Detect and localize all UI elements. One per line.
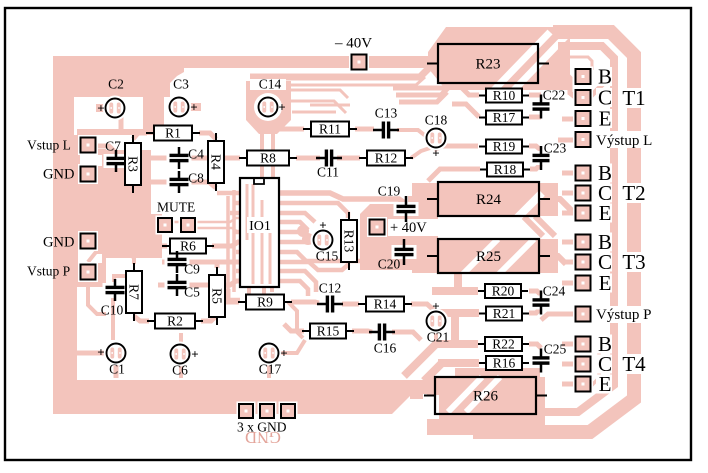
wire IO1 left channel vertical 1 — [226, 196, 230, 296]
wire R24 left lead — [408, 196, 426, 202]
wire C2 positive stub — [96, 104, 110, 112]
capacitor C1 — [104, 341, 129, 366]
svg-text:Vstup P: Vstup P — [27, 264, 70, 279]
resistor R22 — [478, 337, 529, 352]
svg-text:T3: T3 — [622, 250, 645, 274]
wire IO1 left pin 3 stub — [230, 211, 241, 216]
wire R16 band diag to ground — [424, 363, 442, 381]
wire R18 right to C23 bottom — [530, 164, 541, 169]
capacitor C2 — [103, 96, 128, 121]
svg-text:C9: C9 — [184, 262, 200, 277]
wire C24 to Vystup P pad — [541, 314, 576, 320]
wire C17 right to R15 — [277, 340, 305, 353]
wire channel diagonal 1 between R24 R25 — [523, 216, 543, 236]
wire C14 down trace 2 to IO1 — [271, 132, 275, 178]
svg-text:R14: R14 — [374, 297, 397, 312]
capacitor C7 — [104, 150, 129, 172]
wire C pad T2 stub — [562, 191, 576, 196]
wire R1 left to R3 top — [133, 133, 147, 139]
svg-text:C7: C7 — [105, 139, 121, 154]
svg-text:R26: R26 — [473, 389, 499, 405]
wire band to R20 left — [432, 287, 478, 295]
wire C11 right to R12 left — [337, 156, 360, 161]
wire R15 left stub — [284, 324, 304, 331]
copper island around C14 — [246, 81, 291, 134]
wire IO1 left pin 2 stub — [234, 201, 241, 206]
resistor R4 — [208, 133, 224, 191]
wire C6 stub up — [179, 333, 183, 345]
svg-text:C2: C2 — [108, 77, 124, 92]
svg-text:R3: R3 — [125, 156, 140, 172]
wire R5 top up — [215, 260, 220, 268]
capacitor C14 — [256, 95, 281, 120]
svg-text:R17: R17 — [493, 110, 516, 125]
copper bottom ground band — [53, 380, 427, 414]
pad Vystup L — [573, 130, 593, 150]
wire C9 left into plane — [162, 260, 170, 265]
wire R22 band diag to ground — [404, 344, 436, 376]
copper clearance stripes under R26 — [448, 377, 482, 412]
wire Vystup L pad stub — [558, 138, 576, 143]
svg-text:C10: C10 — [101, 303, 124, 318]
wire C10 top to R7 — [114, 276, 126, 282]
svg-text:C12: C12 — [319, 281, 342, 296]
wire C5 left into plane — [158, 283, 170, 288]
svg-text:C24: C24 — [543, 284, 566, 299]
pad GND bottom 2 — [258, 402, 277, 421]
wire C14 island to right 2 — [291, 101, 346, 113]
resistor R18 — [480, 162, 530, 177]
wire C8 left into plane — [150, 180, 168, 185]
svg-text:GND: GND — [43, 166, 74, 182]
copper clearance for IO1 label — [247, 217, 275, 233]
capacitor C4 — [167, 147, 192, 169]
wire IO1 left pin 7 stub — [236, 250, 241, 255]
svg-text:T1: T1 — [622, 86, 645, 110]
svg-text:Výstup P: Výstup P — [596, 307, 651, 323]
wire C22 to B pad T1 — [591, 75, 612, 96]
pad T3 B — [573, 232, 593, 252]
svg-text:C1: C1 — [109, 362, 125, 377]
wire R8 right to C11 left — [296, 156, 320, 161]
wire IO1 pin 19 to R13 top — [279, 203, 348, 218]
wire R25 right lead into band — [548, 256, 566, 264]
svg-text:+: + — [190, 99, 197, 114]
copper strip to R1 — [143, 92, 164, 135]
capacitor C9 — [165, 251, 190, 273]
svg-text:T2: T2 — [622, 181, 645, 205]
svg-text:C15: C15 — [316, 249, 339, 264]
svg-text:C18: C18 — [425, 113, 448, 128]
svg-text:R12: R12 — [375, 151, 398, 166]
wire R9 left up — [228, 289, 239, 302]
svg-text:E: E — [599, 271, 612, 295]
copper plane behind R23 — [428, 27, 570, 90]
wire Vstup L pad to C7 top — [95, 146, 115, 152]
wire C5 right to IO1 pin — [186, 281, 241, 285]
copper patch around Vstup L and GND pads — [77, 135, 106, 188]
wire IO1 pin 17 to C15 plus — [279, 222, 308, 230]
svg-text:+: + — [278, 99, 285, 114]
pad GND bottom 1 — [237, 402, 256, 421]
wire band to R22 left — [434, 340, 478, 348]
wire B pad T4 stub — [562, 342, 576, 347]
wire R17 right to C22 bottom — [529, 115, 541, 120]
svg-text:R15: R15 — [317, 324, 340, 339]
pad Vstup L — [78, 135, 98, 155]
wire across island bottom — [77, 129, 148, 135]
wire R7 bottom to R2 left — [134, 316, 149, 321]
wire C12 right to R14 left — [342, 302, 359, 307]
wire C14 down traces to IO1 — [260, 132, 264, 178]
capacitor C10 — [103, 279, 128, 301]
svg-text:E: E — [599, 372, 612, 396]
wire C pad T3 stub — [562, 260, 576, 265]
wire R22 right to C25 — [529, 344, 541, 348]
capacitor C15 — [311, 228, 336, 253]
wire R12 right to C18 bottom — [411, 148, 430, 158]
copper patch around Vstup P pad — [77, 255, 106, 287]
copper clearance stripes under R23 — [492, 32, 550, 92]
wire C14 to R11 left — [268, 124, 304, 129]
wire R17 left lead to bundle — [452, 104, 479, 117]
copper clearance for +40V label — [388, 219, 441, 236]
wire IO1 pin 20 to C19 top — [279, 193, 406, 204]
clearance around C7 label — [98, 135, 128, 149]
wire IO1 pin 16 to C15 pad — [279, 230, 303, 235]
svg-text:R24: R24 — [476, 192, 502, 208]
copper clearance stripes under R24 — [505, 193, 542, 230]
wire R24 right lead into band — [548, 199, 574, 213]
wire IO1 pin 18 right — [279, 213, 315, 222]
wire R15 right to C16 left — [352, 331, 372, 332]
pad -40V supply — [349, 52, 369, 72]
wire band to R21 left — [434, 309, 479, 317]
copper pad cluster left of C15 — [297, 225, 309, 237]
wire IO1 left channel vertical 2 — [232, 190, 236, 292]
pad +40V supply — [367, 217, 387, 237]
wire bundle below R23 c — [399, 92, 447, 102]
wire C14 island to right 1 — [291, 90, 348, 98]
wire C21 bottom stub — [434, 330, 438, 342]
resistor R11 — [303, 122, 357, 137]
capacitor C3 — [167, 95, 192, 120]
capacitor C12 — [317, 293, 343, 316]
pad MUTE 1 — [156, 216, 175, 235]
pad Vstup P — [78, 262, 98, 282]
wire R11 right to C13 left — [355, 127, 374, 132]
resistor R24 — [427, 182, 550, 216]
svg-text:C25: C25 — [544, 342, 567, 357]
svg-text:E: E — [599, 107, 612, 131]
svg-text:C8: C8 — [188, 171, 204, 186]
svg-text:+: + — [97, 344, 104, 359]
resistor R19 — [479, 139, 529, 154]
wire B pad T2 stub — [562, 171, 576, 176]
capacitor C20 — [392, 239, 417, 265]
net ring inner stub top — [566, 57, 592, 70]
svg-text:R9: R9 — [257, 295, 273, 310]
wire IO1 pin 14 to C20 bottom — [279, 252, 404, 261]
svg-text:MUTE: MUTE — [157, 200, 195, 215]
wire C6 bottom to ground band — [179, 362, 183, 378]
capacitor C6 — [168, 342, 193, 367]
wire band to R16 left — [438, 359, 479, 367]
svg-text:R19: R19 — [493, 139, 516, 154]
wire R23 right lead to C pad T1 — [548, 64, 575, 97]
resistor R8 — [239, 151, 297, 166]
svg-text:R4: R4 — [208, 154, 223, 170]
wire E pad T3 stub — [562, 281, 576, 286]
wire IO1 left pin 9 stub — [236, 269, 241, 274]
svg-text:– 40V: – 40V — [334, 36, 372, 52]
wire C18 bottom to R19 — [434, 146, 478, 150]
resistor R12 — [359, 151, 413, 166]
svg-text:IO1: IO1 — [249, 219, 271, 234]
wire C13 right to C18 — [397, 130, 427, 137]
wire C2 negative pin down — [119, 115, 124, 132]
resistor R6 — [162, 239, 214, 254]
capacitor C5 — [165, 274, 190, 296]
wire IO1 left pin 1 stub — [217, 191, 241, 196]
svg-text:R6: R6 — [180, 239, 196, 254]
svg-text:R10: R10 — [493, 88, 516, 103]
pad T4 C — [573, 354, 593, 374]
svg-text:Vstup L: Vstup L — [27, 138, 71, 153]
svg-text:C11: C11 — [317, 165, 339, 180]
capacitor C18 — [424, 126, 449, 151]
resistor R3 — [125, 135, 141, 193]
svg-text:R13: R13 — [341, 230, 356, 253]
svg-text:E: E — [599, 201, 612, 225]
svg-text:C19: C19 — [378, 184, 401, 199]
wire IO1 pin 12 down right — [279, 271, 316, 292]
wire R21 right to C24 bottom — [529, 308, 541, 313]
wire C19 bottom stub — [404, 216, 408, 222]
svg-text:R7: R7 — [126, 284, 141, 300]
svg-text:Výstup L: Výstup L — [596, 133, 652, 149]
copper plane behind R24 R25 and +40V node — [360, 183, 558, 273]
wire Vstup P pad to R7 top — [88, 252, 134, 264]
svg-text:C21: C21 — [427, 330, 450, 345]
svg-text:R21: R21 — [493, 306, 516, 321]
svg-text:C13: C13 — [375, 106, 398, 121]
svg-text:R1: R1 — [165, 126, 181, 141]
svg-text:R25: R25 — [476, 249, 501, 265]
wire Vstup P pad down — [88, 281, 106, 314]
capacitor C17 — [257, 341, 282, 366]
wire R6 left into plane — [161, 244, 167, 249]
pad T4 B — [573, 334, 593, 354]
svg-text:+: + — [191, 346, 198, 361]
svg-text:T4: T4 — [622, 352, 646, 376]
wire thin above R11 second — [292, 111, 336, 114]
svg-text:R22: R22 — [492, 337, 515, 352]
clearance between GND and Vstup P pads — [78, 251, 102, 263]
wire R14 right to C21 — [411, 304, 436, 312]
resistor R15 — [302, 324, 354, 339]
resistor R14 — [358, 297, 412, 312]
wire band2 horizontal — [250, 66, 431, 77]
pad GND lower — [78, 231, 98, 251]
copper top -40V rail band — [53, 56, 428, 68]
wire C8 right to R4 bottom — [190, 182, 216, 188]
resistor R20 — [478, 284, 528, 299]
svg-text:C6: C6 — [172, 363, 188, 378]
wire IO1 bottom pin down 3 — [270, 287, 274, 292]
capacitor C25 — [530, 349, 553, 373]
clearance island around C2 — [74, 97, 143, 135]
svg-text:GND: GND — [43, 234, 74, 250]
wire band3 thin horizontal — [262, 77, 425, 85]
wire R20 right to C24 — [529, 291, 541, 295]
svg-text:R18: R18 — [494, 162, 517, 177]
resistor R2 — [147, 314, 203, 329]
pad T1 C — [573, 88, 593, 108]
svg-text:3 x GND: 3 x GND — [237, 420, 287, 435]
wire R19 right to C23 — [529, 146, 541, 150]
capacitor C11 — [316, 147, 342, 170]
wire C3 positive stub — [186, 103, 201, 111]
resistor R25 — [427, 239, 550, 273]
net ring middle right — [542, 46, 614, 412]
wire R10 left lead to plane — [459, 85, 479, 95]
wire R9 right down to C17 — [288, 302, 303, 338]
copper plane under C7 R3 — [100, 150, 151, 188]
resistor R9 — [238, 295, 292, 310]
copper plane behind R26 — [427, 368, 545, 435]
pad T3 C — [573, 252, 593, 272]
svg-text:+: + — [319, 217, 326, 232]
wire R1 right to R4 top — [199, 133, 216, 139]
wire R9 left to R5 top area — [220, 286, 240, 300]
copper clearance notch at R26 left lead — [425, 395, 439, 419]
capacitor C22 — [530, 95, 553, 119]
wire C10 bottom down to C1 — [111, 298, 115, 340]
resistor R10 — [479, 88, 529, 103]
svg-text:+: + — [280, 345, 287, 360]
svg-text:C22: C22 — [543, 88, 566, 103]
wire C7 bottom into plane — [114, 168, 118, 180]
wire R9 right to C12 — [291, 302, 319, 303]
svg-text:C3: C3 — [173, 77, 189, 92]
wire C pad T4 stub — [562, 362, 576, 367]
capacitor C21 — [424, 309, 449, 334]
pad Vystup P — [573, 304, 593, 324]
resistor R16 — [479, 356, 529, 371]
wire C4 right to R8 left — [190, 156, 240, 161]
copper clearance around C14 label — [250, 79, 286, 90]
pad MUTE 2 — [179, 216, 198, 235]
wire -40V band to R23 lead — [420, 57, 432, 67]
wire R26 left lead — [410, 393, 423, 399]
svg-text:C17: C17 — [259, 362, 282, 377]
svg-text:R5: R5 — [209, 288, 224, 304]
wire R10 right to C22 — [529, 93, 541, 98]
svg-text:+: + — [97, 100, 104, 115]
wire under IO1 3 — [261, 200, 264, 284]
wire IO1 pin 11 down — [279, 281, 308, 296]
wire R25 to R20 connector — [454, 272, 462, 288]
resistor R13 — [341, 212, 357, 270]
resistor R7 — [126, 263, 142, 321]
wire MUTE pad 2 to IO1 — [194, 228, 241, 232]
wire MUTE pad 1 to IO1 — [172, 218, 241, 222]
wire C20 top stub — [402, 236, 406, 243]
pad T2 E — [573, 203, 593, 223]
pad GND upper — [78, 164, 98, 184]
wire thin above R11 — [310, 104, 350, 107]
wire under IO1 2 — [252, 184, 255, 284]
wire C4 left into plane — [150, 156, 168, 161]
wire C17 bottom to ground band — [267, 361, 271, 378]
svg-text:+: + — [432, 145, 439, 160]
pad T1 B — [573, 67, 593, 87]
svg-text:C4: C4 — [188, 147, 204, 162]
svg-text:R11: R11 — [319, 122, 341, 137]
net ring outer right — [473, 32, 634, 432]
pad T4 E — [573, 374, 593, 394]
clearance island around C3 and notch right of ground block — [170, 68, 252, 126]
wire IO1 pin 15 to C15 — [279, 240, 312, 245]
resistor R21 — [479, 306, 529, 321]
capacitor C13 — [373, 119, 399, 142]
pad T3 E — [573, 273, 593, 293]
copper left edge column — [53, 56, 77, 392]
svg-text:+: + — [432, 298, 439, 313]
copper top left ground block — [53, 56, 184, 97]
svg-text:R2: R2 — [167, 314, 183, 329]
wire IO1 left pin 5 stub — [234, 230, 241, 235]
capacitor C24 — [530, 291, 553, 315]
copper clearance for transistor labels — [596, 67, 612, 86]
wire bundle below R23 a — [393, 78, 455, 88]
wire diag to R18 left — [428, 169, 480, 181]
copper clearance around C14 — [254, 93, 282, 121]
resistor R23 — [427, 44, 549, 83]
wire E pad T2 stub — [562, 211, 576, 216]
wire IO1 pin 13 to R13 bottom — [279, 262, 349, 270]
svg-text:R20: R20 — [492, 284, 515, 299]
resistor R5 — [209, 267, 225, 325]
clearance between Vstup L and GND pads — [80, 155, 102, 166]
wire E pad T1 stub — [562, 117, 576, 122]
resistor R26 — [424, 377, 547, 414]
svg-text:+ 40V: + 40V — [390, 220, 427, 236]
capacitor C8 — [167, 171, 192, 193]
IC IO1 — [240, 178, 279, 287]
svg-text:C14: C14 — [259, 77, 282, 92]
wire R25 left lead — [408, 253, 426, 259]
copper left mid ground plane — [53, 158, 162, 258]
wire R6 right to IO1 pin — [212, 242, 241, 246]
svg-text:C20: C20 — [378, 257, 401, 272]
wire under IO1 4 — [269, 232, 272, 284]
wire bundle below R23 b — [396, 85, 451, 95]
wire IO1 bottom pin down 2 — [262, 287, 266, 294]
wire IO1 bottom pin down 1 — [247, 287, 251, 296]
pad T2 C — [573, 183, 593, 203]
resistor R17 — [479, 110, 529, 125]
capacitor C23 — [530, 146, 553, 170]
svg-text:R23: R23 — [475, 57, 500, 73]
svg-text:C5: C5 — [184, 285, 200, 300]
wire B pad T3 stub — [562, 240, 576, 245]
svg-text:R8: R8 — [260, 151, 276, 166]
wire R21 to R22 connector — [451, 313, 459, 344]
svg-text:C23: C23 — [544, 141, 567, 156]
svg-text:C16: C16 — [374, 341, 397, 356]
